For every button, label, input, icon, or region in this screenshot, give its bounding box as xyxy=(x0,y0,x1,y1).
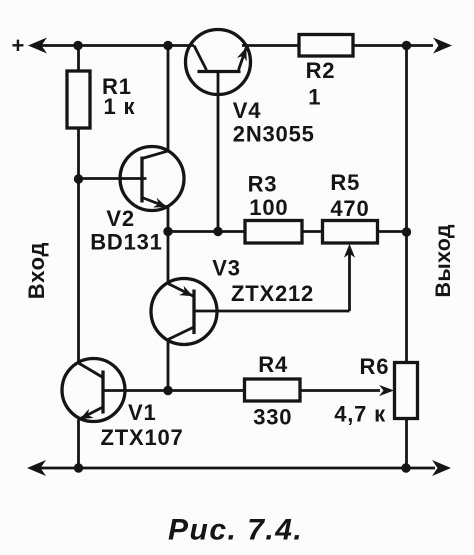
svg-text:ZTX212: ZTX212 xyxy=(231,281,314,306)
svg-text:R6: R6 xyxy=(360,354,390,379)
svg-text:R4: R4 xyxy=(258,352,288,377)
svg-text:V2: V2 xyxy=(106,206,135,231)
svg-text:R3: R3 xyxy=(248,172,278,197)
svg-text:1 к: 1 к xyxy=(104,94,136,119)
svg-text:1: 1 xyxy=(308,85,321,110)
svg-text:Вход: Вход xyxy=(24,242,49,300)
svg-text:V4: V4 xyxy=(233,98,262,123)
svg-text:4,7 к: 4,7 к xyxy=(334,402,386,427)
svg-text:470: 470 xyxy=(330,196,369,221)
svg-text:2N3055: 2N3055 xyxy=(233,122,315,147)
svg-text:V3: V3 xyxy=(212,255,241,280)
svg-text:Рис. 7.4.: Рис. 7.4. xyxy=(168,514,303,547)
svg-text:ZTX107: ZTX107 xyxy=(101,425,184,450)
svg-text:R5: R5 xyxy=(330,170,360,195)
svg-text:R2: R2 xyxy=(306,58,336,83)
svg-text:+: + xyxy=(12,33,26,58)
svg-text:Выход: Выход xyxy=(431,224,455,297)
svg-text:330: 330 xyxy=(253,405,292,430)
svg-text:100: 100 xyxy=(249,195,288,220)
svg-text:V1: V1 xyxy=(128,400,157,425)
svg-text:BD131: BD131 xyxy=(90,229,162,254)
